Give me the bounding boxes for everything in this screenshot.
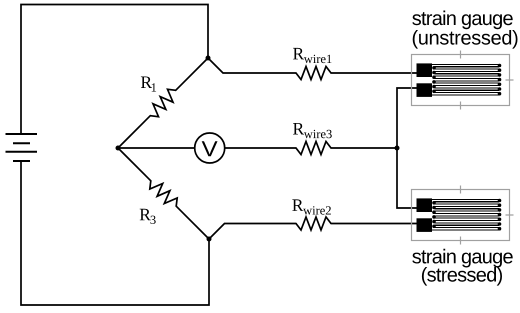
strain gauge stressed terminal pad upper [417,198,433,212]
resistor Rwire3 zigzag [296,142,331,155]
resistor R3 zigzag [150,181,177,206]
strain gauge unstressed grid element [426,64,499,95]
label Rwire2 [292,199,331,214]
resistor Rwire2 zigzag [296,217,331,230]
label strain gauge (unstressed) [412,11,512,30]
wire top rail from battery positive to node A [21,5,208,135]
wire R3 to node D [176,206,209,239]
wire battery negative to bottom rail to node D [21,161,209,305]
strain gauge stressed terminal pad lower [417,218,433,232]
battery V (2-cell) [6,134,38,161]
resistor Rwire1 zigzag [296,67,331,80]
wire voltmeter to Rwire3 [225,147,296,149]
wire Rwire3 to node C [331,147,397,149]
strain gauge stressed alignment ticks [461,186,514,245]
strain gauge unstressed alignment ticks [461,51,514,110]
wire node C down to bottom gauge upper pad [397,148,424,208]
wire Rwire2 to bottom gauge lower pad [331,223,424,225]
voltmeter V letter [202,141,218,156]
label Rwire3 [293,123,332,138]
node A junction dot [206,56,211,61]
label strain gauge (stressed) [412,249,512,268]
wire node D to Rwire2 [209,224,296,240]
wire top gauge lower pad down to node C [397,88,424,148]
wire node A to Rwire1 [208,58,296,73]
wire R1 to node B [118,116,150,148]
label Rwire1 [293,48,332,63]
wire Rwire1 to top gauge upper pad [331,72,424,74]
node B junction dot [116,146,121,151]
voltmeter V body [195,133,225,163]
label R1 [141,77,156,92]
strain gauge unstressed terminal pad upper [417,63,433,77]
node D junction dot [207,237,212,242]
wire node B to R3 [118,148,151,181]
strain gauge stressed body [412,190,510,241]
strain gauge unstressed terminal pad lower [417,83,433,97]
strain gauge unstressed body [412,55,510,106]
strain gauge stressed grid element [426,199,499,230]
wire node A to R1 [176,58,208,90]
label R3 [140,209,156,224]
wire node B to voltmeter [118,147,194,149]
node C junction dot [395,146,400,151]
resistor R1 zigzag [150,89,175,116]
